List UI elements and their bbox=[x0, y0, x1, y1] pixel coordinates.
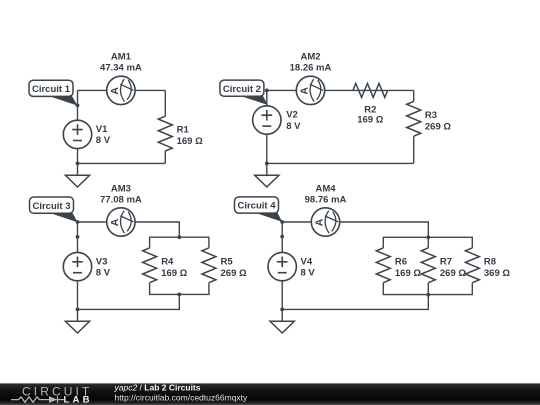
svg-text:AM4: AM4 bbox=[315, 184, 336, 195]
resistor R3 bbox=[407, 101, 421, 136]
svg-text:18.26 mA: 18.26 mA bbox=[290, 63, 332, 74]
svg-text:AM3: AM3 bbox=[111, 184, 131, 195]
svg-text:8 V: 8 V bbox=[96, 135, 111, 146]
ground bbox=[65, 309, 89, 333]
node junction dot bbox=[280, 220, 284, 224]
label R6 169 ohm bbox=[395, 256, 421, 279]
resistor R1 bbox=[158, 116, 172, 151]
svg-text:V1: V1 bbox=[96, 124, 108, 135]
voltage source V1 bbox=[63, 120, 91, 148]
label AM1 47.34 mA bbox=[100, 51, 142, 73]
svg-text:R6: R6 bbox=[395, 256, 407, 267]
svg-text:269 Ω: 269 Ω bbox=[425, 121, 451, 132]
node junction dot bbox=[76, 235, 80, 239]
wire top (node to parallel feed) bbox=[78, 222, 180, 237]
svg-text:98.76 mA: 98.76 mA bbox=[305, 195, 347, 206]
svg-text:77.08 mA: 77.08 mA bbox=[100, 195, 142, 206]
svg-text:AM2: AM2 bbox=[300, 51, 320, 62]
label R4 169 ohm bbox=[161, 256, 187, 279]
label R3 269 ohm bbox=[425, 110, 451, 133]
wire left (V1 branch) bbox=[77, 90, 79, 163]
wire bottom return bbox=[78, 294, 180, 309]
annotation flag Circuit 4 bbox=[235, 197, 283, 222]
svg-text:269 Ω: 269 Ω bbox=[221, 268, 247, 279]
wire left (V3 branch) bbox=[77, 222, 79, 309]
wire parallel bottom rail bbox=[150, 283, 209, 295]
svg-text:V2: V2 bbox=[286, 110, 298, 121]
svg-text:R8: R8 bbox=[484, 256, 496, 267]
node junction dot bbox=[280, 235, 284, 239]
node junction dot bbox=[76, 104, 80, 108]
svg-text:Circuit 1: Circuit 1 bbox=[32, 84, 71, 95]
node junction dot bbox=[426, 235, 430, 239]
node junction dot bbox=[177, 235, 181, 239]
svg-text:8 V: 8 V bbox=[301, 267, 316, 278]
label AM2 18.26 mA bbox=[290, 51, 332, 73]
svg-text:R7: R7 bbox=[440, 256, 452, 267]
svg-text:169 Ω: 169 Ω bbox=[161, 268, 187, 279]
wire right (R1 branch) bbox=[164, 90, 166, 163]
label R5 269 ohm bbox=[221, 256, 247, 279]
wire right (R3 branch) bbox=[413, 90, 415, 163]
resistor R4 bbox=[143, 248, 157, 283]
label V4 8 V bbox=[301, 256, 316, 278]
resistor R2 bbox=[353, 83, 388, 97]
node junction dot bbox=[76, 162, 80, 166]
voltage source V3 bbox=[63, 252, 91, 280]
label AM3 77.08 mA bbox=[100, 184, 142, 206]
node junction dot bbox=[76, 308, 80, 312]
resistor R8 bbox=[465, 248, 479, 283]
ammeter AM3 bbox=[107, 208, 135, 236]
annotation flag Circuit 1 bbox=[29, 80, 78, 105]
ammeter AM1 bbox=[107, 76, 135, 104]
ammeter AM4 bbox=[311, 208, 339, 236]
label V3 8 V bbox=[96, 256, 111, 278]
wire bottom bbox=[267, 162, 414, 164]
node junction dot bbox=[76, 220, 80, 224]
svg-text:R4: R4 bbox=[161, 256, 174, 267]
ground bbox=[270, 309, 294, 333]
svg-text:169 Ω: 169 Ω bbox=[177, 136, 203, 147]
annotation flag Circuit 2 bbox=[220, 80, 268, 105]
svg-text:8 V: 8 V bbox=[286, 121, 301, 132]
svg-text:LAB: LAB bbox=[64, 395, 93, 405]
node junction dot bbox=[177, 293, 181, 297]
svg-text:R3: R3 bbox=[425, 110, 437, 121]
svg-text:369 Ω: 369 Ω bbox=[484, 268, 510, 279]
svg-text:R1: R1 bbox=[177, 125, 190, 136]
wire parallel top rail bbox=[383, 237, 472, 248]
resistor R7 bbox=[421, 248, 435, 283]
label R7 269 ohm bbox=[440, 256, 466, 279]
svg-text:269 Ω: 269 Ω bbox=[440, 268, 466, 279]
svg-text:AM1: AM1 bbox=[111, 51, 132, 62]
footer bar bbox=[0, 383, 540, 405]
voltage source V4 bbox=[268, 252, 296, 280]
svg-text:169 Ω: 169 Ω bbox=[357, 115, 383, 126]
node junction dot bbox=[265, 89, 269, 93]
svg-text:R5: R5 bbox=[221, 256, 234, 267]
label R2 169 ohm bbox=[357, 104, 383, 125]
svg-text:V3: V3 bbox=[96, 256, 108, 267]
svg-text:47.34 mA: 47.34 mA bbox=[100, 63, 142, 74]
ground bbox=[255, 163, 279, 187]
svg-text:Circuit 3: Circuit 3 bbox=[32, 201, 70, 212]
wire top (node to R2 to corner) bbox=[267, 89, 414, 91]
wire bottom return bbox=[282, 295, 428, 310]
svg-text:http://circuitlab.com/cedtuz66: http://circuitlab.com/cedtuz66mqxty bbox=[115, 393, 249, 403]
label V1 8 V bbox=[96, 124, 111, 146]
svg-text:8 V: 8 V bbox=[96, 267, 111, 278]
node junction dot bbox=[426, 293, 430, 297]
label V2 8 V bbox=[286, 110, 301, 132]
svg-text:Circuit 2: Circuit 2 bbox=[223, 84, 261, 95]
ground bbox=[65, 163, 89, 187]
wire left (V4 branch) bbox=[281, 222, 283, 309]
wire top (node to parallel feed) bbox=[282, 222, 428, 237]
node junction dot bbox=[280, 308, 284, 312]
label AM4 98.76 mA bbox=[305, 184, 347, 206]
wire top (node A to R1) bbox=[78, 89, 166, 91]
label R8 369 ohm bbox=[484, 256, 510, 279]
resistor R5 bbox=[202, 248, 216, 283]
svg-text:R2: R2 bbox=[364, 104, 376, 115]
svg-text:169 Ω: 169 Ω bbox=[395, 268, 421, 279]
wire bottom bbox=[78, 162, 166, 164]
wire parallel bottom rail bbox=[383, 283, 472, 295]
wire R7 feed stubs bbox=[427, 237, 429, 294]
wire left (V2 branch) bbox=[266, 90, 268, 163]
ammeter AM2 bbox=[296, 76, 324, 104]
svg-text:V4: V4 bbox=[301, 256, 313, 267]
node junction dot bbox=[265, 162, 269, 166]
logo resistor-diode symbol bbox=[11, 396, 65, 403]
svg-text:yapc2 / Lab 2 Circuits: yapc2 / Lab 2 Circuits bbox=[114, 383, 201, 393]
annotation flag Circuit 3 bbox=[30, 197, 78, 222]
resistor R6 bbox=[376, 248, 390, 283]
voltage source V2 bbox=[253, 106, 281, 134]
label R1 169 ohm bbox=[177, 125, 203, 148]
wire parallel top rail bbox=[150, 237, 209, 248]
svg-text:Circuit 4: Circuit 4 bbox=[237, 201, 276, 212]
